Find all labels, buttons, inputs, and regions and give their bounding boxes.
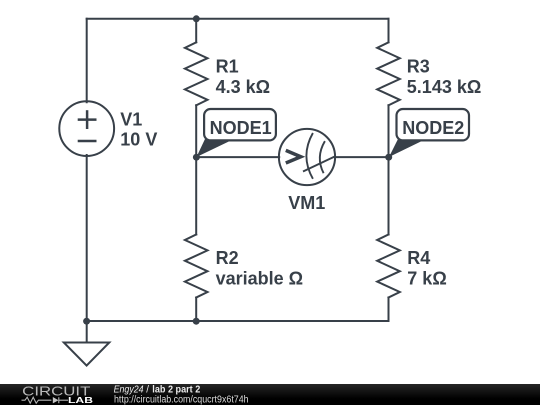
svg-text:R1: R1 [216,56,239,76]
svg-text:R3: R3 [407,56,430,76]
svg-text:4.3 kΩ: 4.3 kΩ [216,77,270,97]
svg-text:10 V: 10 V [120,129,157,149]
svg-text:R2: R2 [216,248,239,268]
svg-text:R4: R4 [407,248,430,268]
svg-text:5.143 kΩ: 5.143 kΩ [407,77,482,97]
svg-text:7 kΩ: 7 kΩ [407,269,446,289]
svg-text:NODE1: NODE1 [210,118,272,138]
svg-text:NODE2: NODE2 [402,118,464,138]
svg-text:V1: V1 [120,110,142,130]
svg-text:VM1: VM1 [288,193,325,213]
svg-text:LAB: LAB [68,395,93,405]
svg-text:variable Ω: variable Ω [216,269,303,289]
svg-text:http://circuitlab.com/cqucrt9x: http://circuitlab.com/cqucrt9x6t74h [114,394,249,405]
